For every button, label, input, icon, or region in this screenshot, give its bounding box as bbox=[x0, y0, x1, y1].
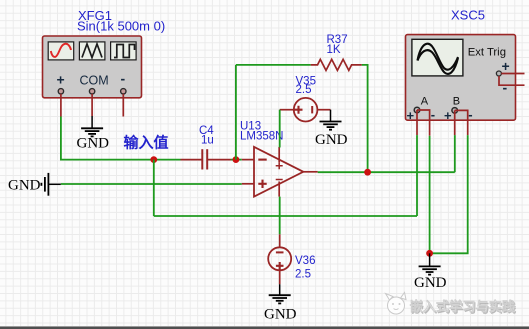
wire ground to opamp plus input bbox=[61, 183, 242, 185]
svg-text:1u: 1u bbox=[201, 135, 214, 147]
watermark logo bbox=[386, 293, 517, 316]
wire output to scope B+ bbox=[454, 135, 456, 172]
wire R37 to output node bbox=[362, 65, 368, 172]
op-amp U13 bbox=[254, 147, 303, 197]
svg-text:GND: GND bbox=[77, 136, 110, 152]
wire A- green down to ground node bbox=[429, 136, 431, 254]
svg-text:V36: V36 bbox=[295, 255, 315, 267]
wire input node down bbox=[153, 160, 155, 216]
ground under COM bbox=[81, 116, 103, 136]
svg-text:GND: GND bbox=[264, 307, 297, 323]
voltage source V35 bbox=[280, 98, 331, 122]
voltage source V36 bbox=[268, 234, 291, 284]
svg-text:-: - bbox=[468, 107, 472, 122]
ground at V36 bbox=[269, 284, 291, 303]
wire ext trig plus bbox=[501, 73, 524, 75]
wire A+ green down bbox=[416, 135, 418, 216]
oscilloscope XSC5 body bbox=[406, 35, 516, 123]
wire V35 to opamp V+ bbox=[279, 110, 281, 148]
svg-text:+: + bbox=[502, 58, 510, 74]
ground at V35 bbox=[320, 110, 342, 130]
svg-text:Ext Trig: Ext Trig bbox=[468, 46, 506, 58]
wire feedback vertical bbox=[235, 65, 237, 160]
bottom frame line bbox=[0, 326, 529, 327]
resistor R37 bbox=[311, 59, 362, 70]
svg-text:2.5: 2.5 bbox=[296, 84, 312, 96]
wire ext trig minus bbox=[499, 76, 525, 85]
wire XFG1 minus pin stub bbox=[122, 94, 124, 117]
wire XFG1 plus pin stub bbox=[60, 94, 62, 117]
wire XFG1 plus to input net bbox=[60, 117, 62, 160]
wire scope A- pin bbox=[417, 110, 430, 136]
svg-text:输入值: 输入值 bbox=[124, 134, 169, 152]
wire feedback top horizontal bbox=[236, 64, 311, 66]
svg-text:嵌入式学习与实践: 嵌入式学习与实践 bbox=[410, 298, 515, 314]
svg-text:-: - bbox=[431, 107, 435, 122]
ground left bbox=[41, 173, 60, 196]
svg-text:+: + bbox=[407, 108, 415, 123]
wire C4 to opamp minus input bbox=[231, 159, 242, 161]
svg-text:-: - bbox=[121, 71, 126, 87]
junction output node bbox=[364, 169, 371, 176]
svg-text:GND: GND bbox=[8, 178, 41, 194]
wire XFG1 COM pin stub bbox=[91, 94, 93, 116]
wire scope A+ pin bbox=[416, 110, 418, 135]
svg-text:XSC5: XSC5 bbox=[451, 8, 485, 23]
ground at scope bbox=[419, 253, 441, 274]
svg-text:Sin(1k 500m 0): Sin(1k 500m 0) bbox=[77, 19, 165, 34]
wire B- green down to ground node bbox=[430, 135, 468, 253]
wire opamp minus input lead bbox=[242, 159, 254, 161]
svg-text:+: + bbox=[57, 72, 65, 88]
wire input node to scope A+ bbox=[154, 215, 417, 217]
svg-text:1K: 1K bbox=[327, 44, 341, 56]
svg-text:-: - bbox=[503, 80, 508, 96]
wire output net horizontal bbox=[318, 171, 455, 173]
wire input net horizontal bbox=[60, 159, 181, 161]
wire scope B- pin bbox=[455, 110, 468, 135]
svg-text:A: A bbox=[421, 96, 429, 108]
junction feedback node bbox=[233, 156, 240, 163]
svg-text:2.5: 2.5 bbox=[295, 269, 311, 281]
svg-text:LM358N: LM358N bbox=[240, 131, 283, 143]
svg-text:COM: COM bbox=[80, 74, 109, 88]
capacitor C4 bbox=[181, 149, 232, 169]
svg-text:GND: GND bbox=[414, 275, 447, 291]
wire opamp V- to V36 bbox=[279, 197, 281, 235]
wire scope B+ pin bbox=[454, 110, 456, 135]
wire opamp plus input lead bbox=[242, 183, 254, 185]
svg-text:GND: GND bbox=[315, 132, 348, 148]
svg-text:B: B bbox=[453, 96, 460, 108]
function generator XFG1 body bbox=[43, 36, 142, 98]
junction input node bbox=[150, 156, 157, 163]
junction scope ground node bbox=[426, 250, 433, 257]
svg-text:+: + bbox=[444, 108, 452, 123]
wire opamp output lead bbox=[303, 171, 317, 173]
